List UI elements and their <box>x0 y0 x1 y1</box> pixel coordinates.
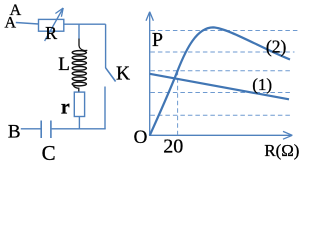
capacitor C left plate <box>40 121 42 139</box>
inductor L coil <box>72 51 86 86</box>
dashed gridline 2 <box>150 51 294 53</box>
wire B to capacitor <box>21 128 41 130</box>
inductor L lead bottom <box>73 85 79 92</box>
switch branch upper lead <box>105 24 107 68</box>
dashed gridline 3 <box>150 70 292 72</box>
switch branch lower lead <box>104 87 106 129</box>
svg-text:R(Ω): R(Ω) <box>264 141 299 160</box>
rheostat arrow through R <box>45 8 64 41</box>
wire A to R <box>16 23 39 25</box>
svg-text:r: r <box>61 97 70 119</box>
svg-text:(1): (1) <box>252 75 272 94</box>
svg-text:B: B <box>8 121 21 142</box>
capacitor C right plate <box>50 121 52 139</box>
resistor r box <box>74 92 84 116</box>
svg-text:L: L <box>58 54 70 75</box>
wire R to switch branch <box>64 23 106 25</box>
dashed vertical line at 20 <box>177 71 179 136</box>
svg-text:C: C <box>42 141 56 165</box>
svg-text:20: 20 <box>163 135 183 157</box>
wire junction down to inductor <box>78 24 80 39</box>
graph x-axis <box>149 131 292 139</box>
line 1 <box>150 74 289 100</box>
graph y-axis <box>146 12 153 136</box>
switch K blade <box>106 68 116 82</box>
svg-text:O: O <box>134 127 148 148</box>
dashed gridline 1 <box>150 30 298 32</box>
dashed gridline 4 <box>150 92 291 94</box>
dashed gridline 5 <box>150 114 291 116</box>
resistor R box <box>39 19 64 31</box>
svg-text:A: A <box>5 14 17 31</box>
svg-text:(2): (2) <box>266 36 287 56</box>
wire r to bottom <box>78 117 80 129</box>
svg-text:K: K <box>116 63 130 84</box>
svg-text:P: P <box>152 29 163 51</box>
bottom wire capacitor to switch <box>52 128 106 130</box>
inductor L lead top <box>79 39 87 51</box>
curve 2 <box>150 27 290 135</box>
svg-text:R: R <box>45 23 57 43</box>
